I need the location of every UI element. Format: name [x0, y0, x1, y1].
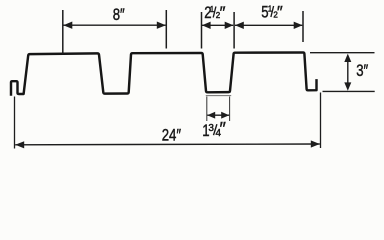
2.5in/5.5in shared extension line: [233, 12, 235, 49]
8in dimension line: [64, 24, 166, 26]
24in extension line right: [320, 93, 322, 149]
1.75in dimension line: [207, 114, 229, 116]
5.5in right arrowhead: [294, 22, 303, 29]
2.5in extension line left: [201, 12, 203, 49]
1.75in right arrowhead: [221, 112, 229, 119]
5.5in left arrowhead: [235, 22, 244, 29]
2.5in label: [204, 4, 225, 23]
3in bottom reference line: [323, 90, 375, 92]
svg-text:″: ″: [220, 119, 227, 139]
1.75in left arrowhead: [207, 112, 215, 119]
1.75in extension line left: [206, 97, 208, 122]
24in extension line left: [14, 97, 16, 149]
2.5in left arrowhead: [202, 22, 211, 29]
5.5in extension line right: [302, 11, 304, 42]
5.5in label: [261, 3, 283, 22]
24in right arrowhead: [311, 140, 320, 147]
3in down arrowhead: [344, 82, 351, 90]
3in top reference line: [310, 52, 375, 54]
svg-text:24″: 24″: [162, 126, 182, 145]
1.75in label: [202, 119, 226, 141]
svg-text:8″: 8″: [113, 6, 126, 25]
svg-text:″: ″: [277, 4, 283, 22]
deck profile outline: [11, 53, 317, 95]
1.75in extension line right: [229, 97, 231, 122]
5.5in dimension line: [235, 24, 302, 26]
faint line under valley 2: [206, 95, 231, 97]
8in dimension extension line left: [62, 10, 64, 54]
svg-text:3″: 3″: [356, 62, 369, 81]
svg-text:″: ″: [220, 4, 226, 22]
3in up arrowhead: [344, 54, 351, 62]
3in dimension shaft: [347, 57, 349, 88]
8in right arrowhead: [157, 22, 166, 29]
24in left arrowhead: [15, 141, 24, 148]
2.5in right arrowhead: [225, 22, 234, 29]
2.5in dimension line: [202, 24, 233, 26]
svg-text:3: 3: [208, 123, 214, 134]
8in dimension extension line right: [165, 10, 167, 49]
24in dimension line: [15, 143, 320, 146]
8in left arrowhead: [63, 22, 72, 29]
